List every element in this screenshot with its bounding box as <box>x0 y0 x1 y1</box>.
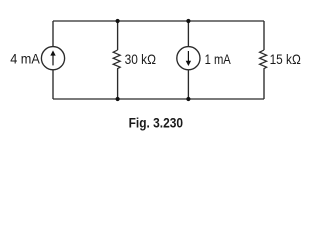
wire 30k branch upper lead <box>117 21 119 50</box>
svg-text:30 kΩ: 30 kΩ <box>125 51 156 67</box>
resistor R1 30 kOhm zigzag <box>113 50 120 69</box>
svg-text:15 kΩ: 15 kΩ <box>270 51 301 67</box>
wire left branch lower <box>52 70 54 99</box>
current source I1 4 mA circle <box>41 47 64 70</box>
current source I1 arrow up <box>52 55 53 65</box>
wire 1mA branch upper lead <box>187 21 189 47</box>
current source I2 arrow down <box>188 51 189 61</box>
wire top <box>53 20 264 22</box>
wire 30k branch lower lead <box>117 69 119 99</box>
node dot bottom-right junction <box>186 97 190 101</box>
svg-text:Fig. 3.230: Fig. 3.230 <box>129 116 183 131</box>
svg-text:4 mA: 4 mA <box>10 51 40 67</box>
wire left branch upper <box>52 21 54 47</box>
wire bottom <box>53 98 264 100</box>
wire 1mA branch lower lead <box>187 70 189 99</box>
node dot top-left junction <box>116 19 120 23</box>
node dot top-right junction <box>186 19 190 23</box>
wire right branch lower <box>263 69 265 99</box>
current source I2 1 mA circle <box>177 47 200 70</box>
wire right branch upper <box>263 21 265 50</box>
resistor R2 15 kOhm zigzag <box>260 50 267 69</box>
svg-text:1 mA: 1 mA <box>205 51 232 67</box>
node dot bottom-left junction <box>116 97 120 101</box>
